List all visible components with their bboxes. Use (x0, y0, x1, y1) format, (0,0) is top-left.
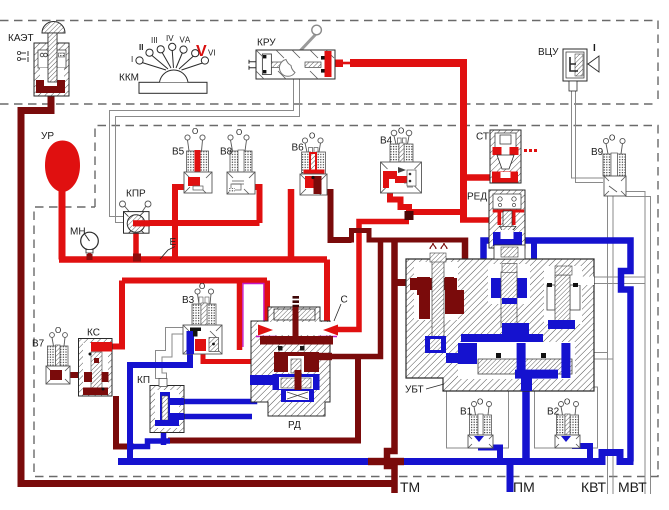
node КПР junction (133, 254, 141, 262)
svg-text:КС: КС (87, 328, 100, 339)
wire blue РЕД drop to УБТ (531, 241, 537, 285)
wire red В8 exit (243, 187, 260, 223)
wire red branch to СТ (464, 174, 492, 181)
svg-text:КВТ: КВТ (581, 479, 607, 495)
svg-text:РЕД: РЕД (467, 192, 487, 203)
wire maroon bridge over С-line (352, 231, 370, 243)
component В3 solenoid valve (183, 289, 222, 354)
wire red КС drop (92, 281, 122, 347)
svg-text:I: I (593, 43, 596, 54)
svg-text:ПМ: ПМ (513, 479, 535, 495)
wire red supply vertical to РЕД (460, 59, 467, 219)
node МН junction (87, 254, 93, 260)
svg-text:УР: УР (41, 131, 54, 142)
wire maroon КС output (116, 396, 134, 447)
wire red В3 branch drop (237, 281, 243, 351)
wire blue РЕД right loop (520, 241, 631, 462)
wire red В4 staircase (390, 186, 409, 215)
wire maroon РД right branch (320, 240, 381, 357)
svg-text:ККМ: ККМ (119, 73, 139, 84)
svg-text:В6: В6 (292, 143, 305, 154)
svg-text:МВТ: МВТ (618, 479, 647, 495)
svg-text:В3: В3 (182, 295, 195, 306)
wire red В3 to РД lower left (203, 352, 255, 362)
wire maroon to УБТ main (369, 238, 465, 243)
svg-text:VА: VА (180, 36, 191, 45)
component В2 solenoid valve (555, 402, 580, 449)
dashed border main box (34, 126, 658, 477)
wire red supply main horizontal (59, 256, 327, 263)
component ККМ gear gate (136, 43, 209, 93)
svg-text:В5: В5 (172, 147, 185, 158)
wire red КПР stem (133, 228, 139, 257)
component КПР (120, 201, 152, 233)
svg-text:РД: РД (288, 420, 301, 431)
svg-text:О: О (398, 127, 404, 136)
svg-text:В4: В4 (380, 136, 393, 147)
wire grey В9-МВТ pipe (620, 192, 651, 495)
svg-text:О: О (55, 326, 61, 335)
component В1 solenoid valve (468, 402, 493, 449)
svg-text:О: О (192, 127, 198, 136)
УБТ bottom piston (458, 342, 575, 379)
wire grey УБТ-МВТ branch (594, 277, 645, 284)
wire grey УБТ-КВТ branch (594, 353, 613, 360)
wire red В6 supply drop (288, 189, 295, 260)
svg-text:IV: IV (166, 34, 174, 43)
symbol above УБТ left valve (430, 243, 447, 249)
svg-text:III: III (151, 36, 158, 45)
wire blue В3 output (130, 335, 190, 462)
wire maroon УБТ corner (435, 238, 465, 311)
wire red КПР-В5-В8 line (148, 220, 260, 226)
component В6 solenoid valve (300, 138, 327, 195)
svg-text:В1: В1 (460, 407, 473, 418)
svg-text:МН: МН (70, 227, 86, 238)
svg-text:СТ: СТ (476, 132, 489, 143)
component КС (79, 339, 113, 397)
component КП (150, 379, 184, 433)
component РД regulator (250, 296, 338, 416)
component СТ (490, 130, 537, 183)
svg-text:КРУ: КРУ (257, 38, 276, 49)
svg-text:О: О (236, 128, 242, 137)
wire maroon КАЭТ drop (21, 92, 392, 484)
svg-text:С: С (341, 295, 348, 306)
component ВЦУ (563, 49, 599, 91)
component В7 solenoid valve (46, 333, 70, 384)
wire grey В3-КП pipe (156, 328, 184, 386)
component РЕД (489, 190, 525, 248)
wire blue КП-РД lower (184, 414, 252, 420)
УБТ middle valve (488, 264, 530, 304)
wire blue КП-РД upper (184, 382, 255, 402)
svg-text:О: О (477, 398, 483, 407)
component КРУ (249, 25, 335, 79)
УБТ right valve (544, 266, 582, 324)
svg-text:О: О (609, 134, 615, 143)
wire blue В1 out (481, 432, 500, 462)
svg-text:В8: В8 (220, 147, 233, 158)
node В4 junction (405, 211, 414, 220)
wire red supply to РД right port (324, 260, 330, 335)
wire grey В1 frame (447, 387, 509, 448)
УБТ left valve (414, 262, 458, 320)
wire red КРУ main line (350, 59, 464, 67)
wire maroon РД drain (168, 359, 358, 441)
wire maroon ТМ bridge overlay (368, 458, 404, 465)
wire red РД left port drop (264, 281, 270, 331)
svg-text:II: II (139, 43, 143, 52)
wire maroon ТМ vertical (387, 240, 395, 493)
wire red КС feed horizontal (122, 278, 267, 284)
wire red В4 to С-line (336, 222, 409, 330)
component В4 solenoid valve (381, 130, 422, 193)
wire blue main bottom line (118, 453, 634, 462)
svg-text:ТМ: ТМ (400, 479, 420, 495)
component В8 solenoid valve (227, 135, 255, 194)
svg-text:Е: Е (170, 237, 177, 248)
wire blue ПМ drop (507, 462, 514, 493)
svg-text:В7: В7 (32, 339, 45, 350)
wire grey ВЦУ-В9 (572, 90, 604, 183)
svg-text:УБТ: УБТ (405, 385, 424, 396)
component УР accumulator (45, 141, 80, 193)
wire grey В2 frame (535, 387, 598, 448)
svg-text:КП: КП (137, 375, 150, 386)
wire magenta control line (243, 284, 264, 348)
dashed border top band (0, 20, 658, 22)
component УБТ block (406, 243, 594, 391)
svg-text:VI: VI (208, 49, 216, 58)
wire grey В9-КВТ pipe (608, 196, 614, 494)
wire red В5 drop (175, 187, 188, 260)
component КАЭТ (17, 22, 69, 97)
svg-text:V: V (196, 43, 207, 60)
wire grey КРУ-КПР pipe (110, 79, 300, 223)
svg-text:О: О (199, 282, 205, 291)
svg-text:КПР: КПР (126, 189, 146, 200)
svg-text:ВЦУ: ВЦУ (538, 47, 559, 58)
wire red МН stem (88, 249, 92, 257)
svg-text:КАЭТ: КАЭТ (8, 33, 34, 44)
wire maroon В6 exit (321, 192, 352, 240)
wire maroon УБТ left valve feed (395, 279, 411, 286)
wire red УР drop (59, 190, 66, 260)
wire blue КП drop (161, 430, 167, 445)
component МН gauge (81, 232, 99, 253)
component В9 solenoid valve (603, 138, 626, 196)
wire red В4 junction horizontal (409, 209, 464, 215)
wire blue В2 out (575, 430, 590, 462)
component В5 solenoid valve (184, 135, 212, 193)
svg-text:В9: В9 (591, 147, 604, 158)
wire blue РЕД left out (484, 241, 493, 312)
svg-text:О: О (564, 398, 570, 407)
wire blue КП link jog (133, 441, 170, 447)
svg-text:I: I (131, 55, 133, 64)
wire maroon В7-КС link (52, 372, 80, 378)
svg-text:О: О (309, 132, 315, 141)
wire blue УБТ central out (522, 388, 530, 462)
svg-text:В2: В2 (547, 407, 560, 418)
wire red branch to РЕД (460, 217, 497, 223)
wire red КРУ thin output (330, 60, 343, 68)
